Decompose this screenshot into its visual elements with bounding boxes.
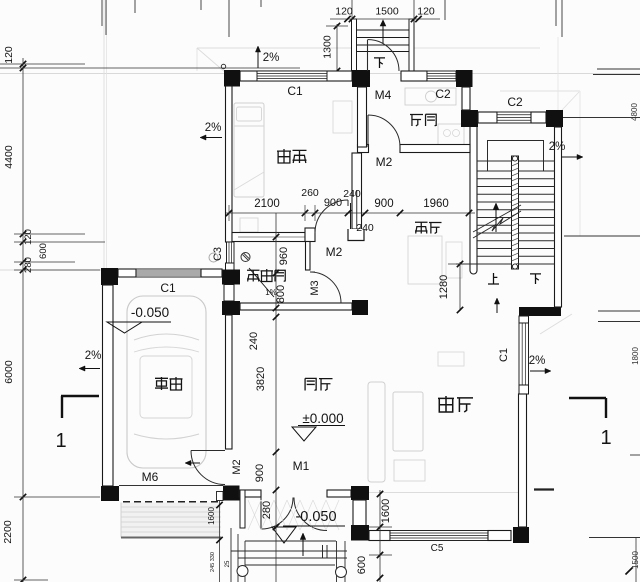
svg-text:1: 1: [600, 427, 611, 449]
svg-text:600: 600: [38, 243, 49, 259]
svg-text:6000: 6000: [3, 360, 15, 384]
svg-text:1%: 1%: [265, 288, 277, 297]
svg-text:240: 240: [343, 188, 361, 200]
svg-text:C2: C2: [435, 87, 451, 101]
svg-text:120: 120: [335, 6, 353, 18]
svg-text:C2: C2: [507, 95, 523, 109]
svg-text:280: 280: [261, 501, 273, 519]
svg-text:C3: C3: [212, 247, 224, 261]
svg-text:1960: 1960: [423, 198, 449, 210]
svg-text:2%: 2%: [549, 141, 566, 153]
svg-text:900: 900: [374, 198, 393, 210]
svg-text:120: 120: [3, 46, 15, 64]
svg-text:C1: C1: [160, 281, 176, 295]
svg-text:240: 240: [356, 222, 374, 234]
svg-text:280: 280: [23, 257, 34, 273]
svg-text:1500: 1500: [375, 6, 399, 18]
svg-text:4800: 4800: [630, 103, 639, 121]
svg-text:C1: C1: [287, 84, 303, 98]
svg-text:120: 120: [23, 229, 34, 245]
svg-text:M4: M4: [375, 88, 392, 102]
svg-text:4400: 4400: [3, 145, 15, 169]
svg-text:M1: M1: [293, 459, 310, 473]
svg-text:C1: C1: [498, 348, 510, 362]
svg-text:900: 900: [324, 197, 342, 209]
svg-text:3820: 3820: [255, 367, 267, 391]
svg-text:240: 240: [248, 332, 260, 350]
svg-text:600: 600: [356, 556, 368, 574]
svg-text:2%: 2%: [85, 350, 102, 362]
svg-text:M2: M2: [326, 245, 343, 259]
svg-text:2200: 2200: [2, 520, 14, 544]
svg-text:960: 960: [278, 247, 290, 265]
svg-text:±0.000: ±0.000: [302, 411, 343, 426]
svg-text:1: 1: [55, 430, 66, 452]
svg-text:800: 800: [275, 285, 287, 303]
svg-text:M2: M2: [376, 155, 393, 169]
svg-text:2100: 2100: [254, 198, 280, 210]
svg-text:1600: 1600: [380, 499, 392, 523]
svg-text:2%: 2%: [529, 355, 546, 367]
svg-text:1280: 1280: [438, 275, 450, 299]
svg-text:-0.050: -0.050: [295, 509, 336, 525]
svg-text:900: 900: [254, 464, 266, 482]
svg-text:-0.050: -0.050: [131, 305, 169, 320]
svg-text:25: 25: [225, 560, 231, 567]
svg-text:1300: 1300: [322, 35, 334, 59]
svg-text:C5: C5: [431, 543, 444, 554]
svg-text:M3: M3: [309, 280, 321, 295]
svg-text:1600: 1600: [207, 507, 216, 525]
svg-text:2%: 2%: [263, 52, 280, 64]
svg-text:M2: M2: [231, 459, 243, 474]
svg-text:1500: 1500: [631, 551, 640, 569]
svg-text:245 330: 245 330: [210, 552, 216, 572]
svg-text:1800: 1800: [631, 347, 640, 365]
svg-text:2%: 2%: [205, 122, 222, 134]
svg-text:120: 120: [417, 6, 435, 18]
svg-text:260: 260: [301, 187, 319, 199]
svg-text:M6: M6: [142, 470, 159, 484]
